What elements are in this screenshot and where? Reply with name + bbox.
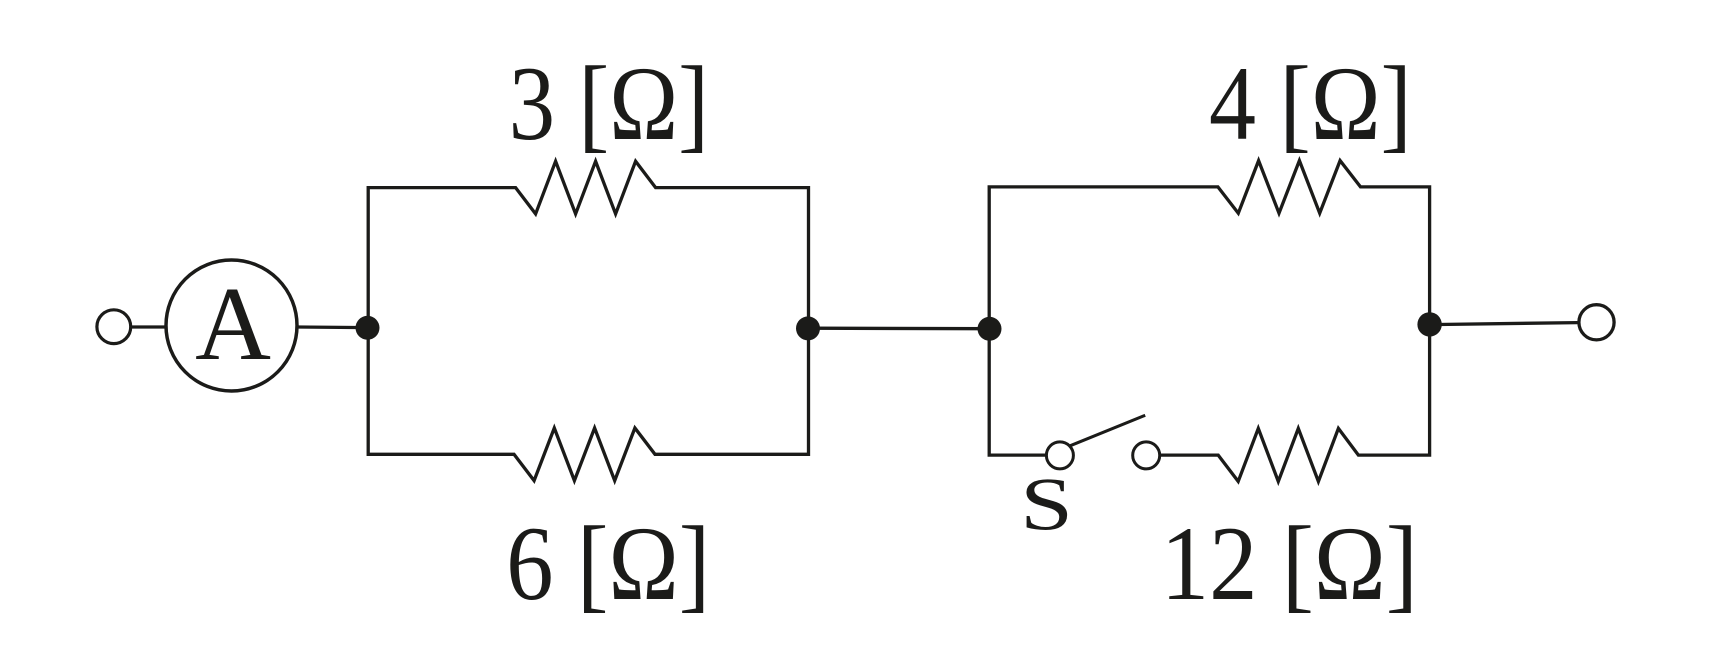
wire right block top branch with resistor R3 4ohm [989, 161, 1429, 329]
svg-text:S: S [1020, 464, 1073, 547]
wire switch-to-R4 with resistor R4 12ohm [1160, 325, 1430, 482]
svg-text:3 [Ω]: 3 [Ω] [509, 45, 709, 162]
svg-text:A: A [195, 265, 271, 382]
node C junction dot [978, 317, 1002, 341]
ammeter U1 circle [166, 260, 297, 391]
switch S pole circle [1046, 442, 1073, 469]
wire left block bottom branch with resistor R2 6ohm [368, 328, 808, 481]
svg-text:12 [Ω]: 12 [Ω] [1161, 505, 1418, 622]
wire right block bottom-left to switch [989, 329, 1046, 455]
terminal right [1579, 305, 1614, 340]
wire left block top branch with resistor R1 3ohm [368, 161, 808, 328]
node A junction dot [356, 316, 380, 340]
wire nodeD-to-terminal-right [1430, 323, 1578, 325]
node D junction dot [1417, 312, 1441, 336]
svg-text:4 [Ω]: 4 [Ω] [1209, 45, 1412, 162]
switch S throw circle [1133, 442, 1160, 469]
svg-text:6 [Ω]: 6 [Ω] [506, 505, 710, 622]
switch S blade [1070, 415, 1145, 445]
wire ammeter-to-nodeA [297, 325, 368, 329]
terminal left [97, 310, 131, 344]
wire terminal-to-ammeter [131, 325, 167, 328]
node B junction dot [796, 316, 820, 340]
wire middle nodeB-to-nodeC [809, 327, 990, 331]
